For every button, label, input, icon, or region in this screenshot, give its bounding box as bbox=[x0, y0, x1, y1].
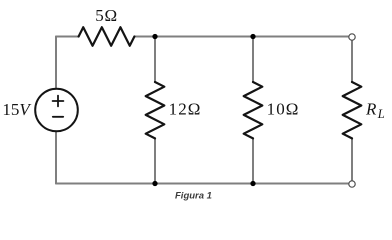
wire left vertical above source bbox=[55, 37, 57, 89]
svg-text:Figura 1: Figura 1 bbox=[175, 191, 212, 202]
resistor R 5ohm (horizontal zigzag) bbox=[79, 27, 135, 46]
svg-text:5Ω: 5Ω bbox=[95, 6, 118, 25]
wire left vertical below source bbox=[55, 131, 57, 183]
open terminal top right bbox=[349, 34, 355, 40]
wire top terminal down to RL resistor bbox=[351, 40, 353, 82]
junction dot node B bottom bbox=[250, 181, 255, 186]
junction dot node A top bbox=[152, 34, 157, 39]
resistor 12ohm (vertical zigzag) bbox=[146, 82, 165, 138]
wire 12-ohm resistor to bottom rail bbox=[154, 138, 156, 183]
wire node B down to 10-ohm resistor bbox=[252, 37, 254, 83]
resistor RL (vertical zigzag) bbox=[343, 82, 362, 138]
wire top-left horizontal (left rail to 5-ohm resistor) bbox=[56, 36, 79, 38]
wire top (node A to node B) bbox=[155, 36, 253, 38]
wire 10-ohm resistor to bottom rail bbox=[252, 138, 254, 183]
svg-text:12Ω: 12Ω bbox=[169, 100, 202, 119]
voltage source V1 circle bbox=[35, 89, 78, 132]
wire RL resistor down to bottom terminal bbox=[351, 138, 353, 180]
junction dot node B top bbox=[250, 34, 255, 39]
wire top-right (node B to terminal) bbox=[253, 36, 349, 38]
open terminal bottom right bbox=[349, 181, 355, 187]
wire node A down to 12-ohm resistor bbox=[154, 37, 156, 83]
wire bottom horizontal bbox=[56, 183, 349, 185]
svg-text:10Ω: 10Ω bbox=[267, 100, 300, 119]
junction dot node A bottom bbox=[152, 181, 157, 186]
plus sign inside source bbox=[53, 96, 64, 107]
svg-text:15V: 15V bbox=[2, 100, 32, 119]
wire top middle (5-ohm resistor to node A) bbox=[134, 36, 155, 38]
resistor 10ohm (vertical zigzag) bbox=[244, 82, 263, 138]
minus sign inside source bbox=[53, 116, 63, 118]
svg-text:RL: RL bbox=[365, 99, 385, 121]
